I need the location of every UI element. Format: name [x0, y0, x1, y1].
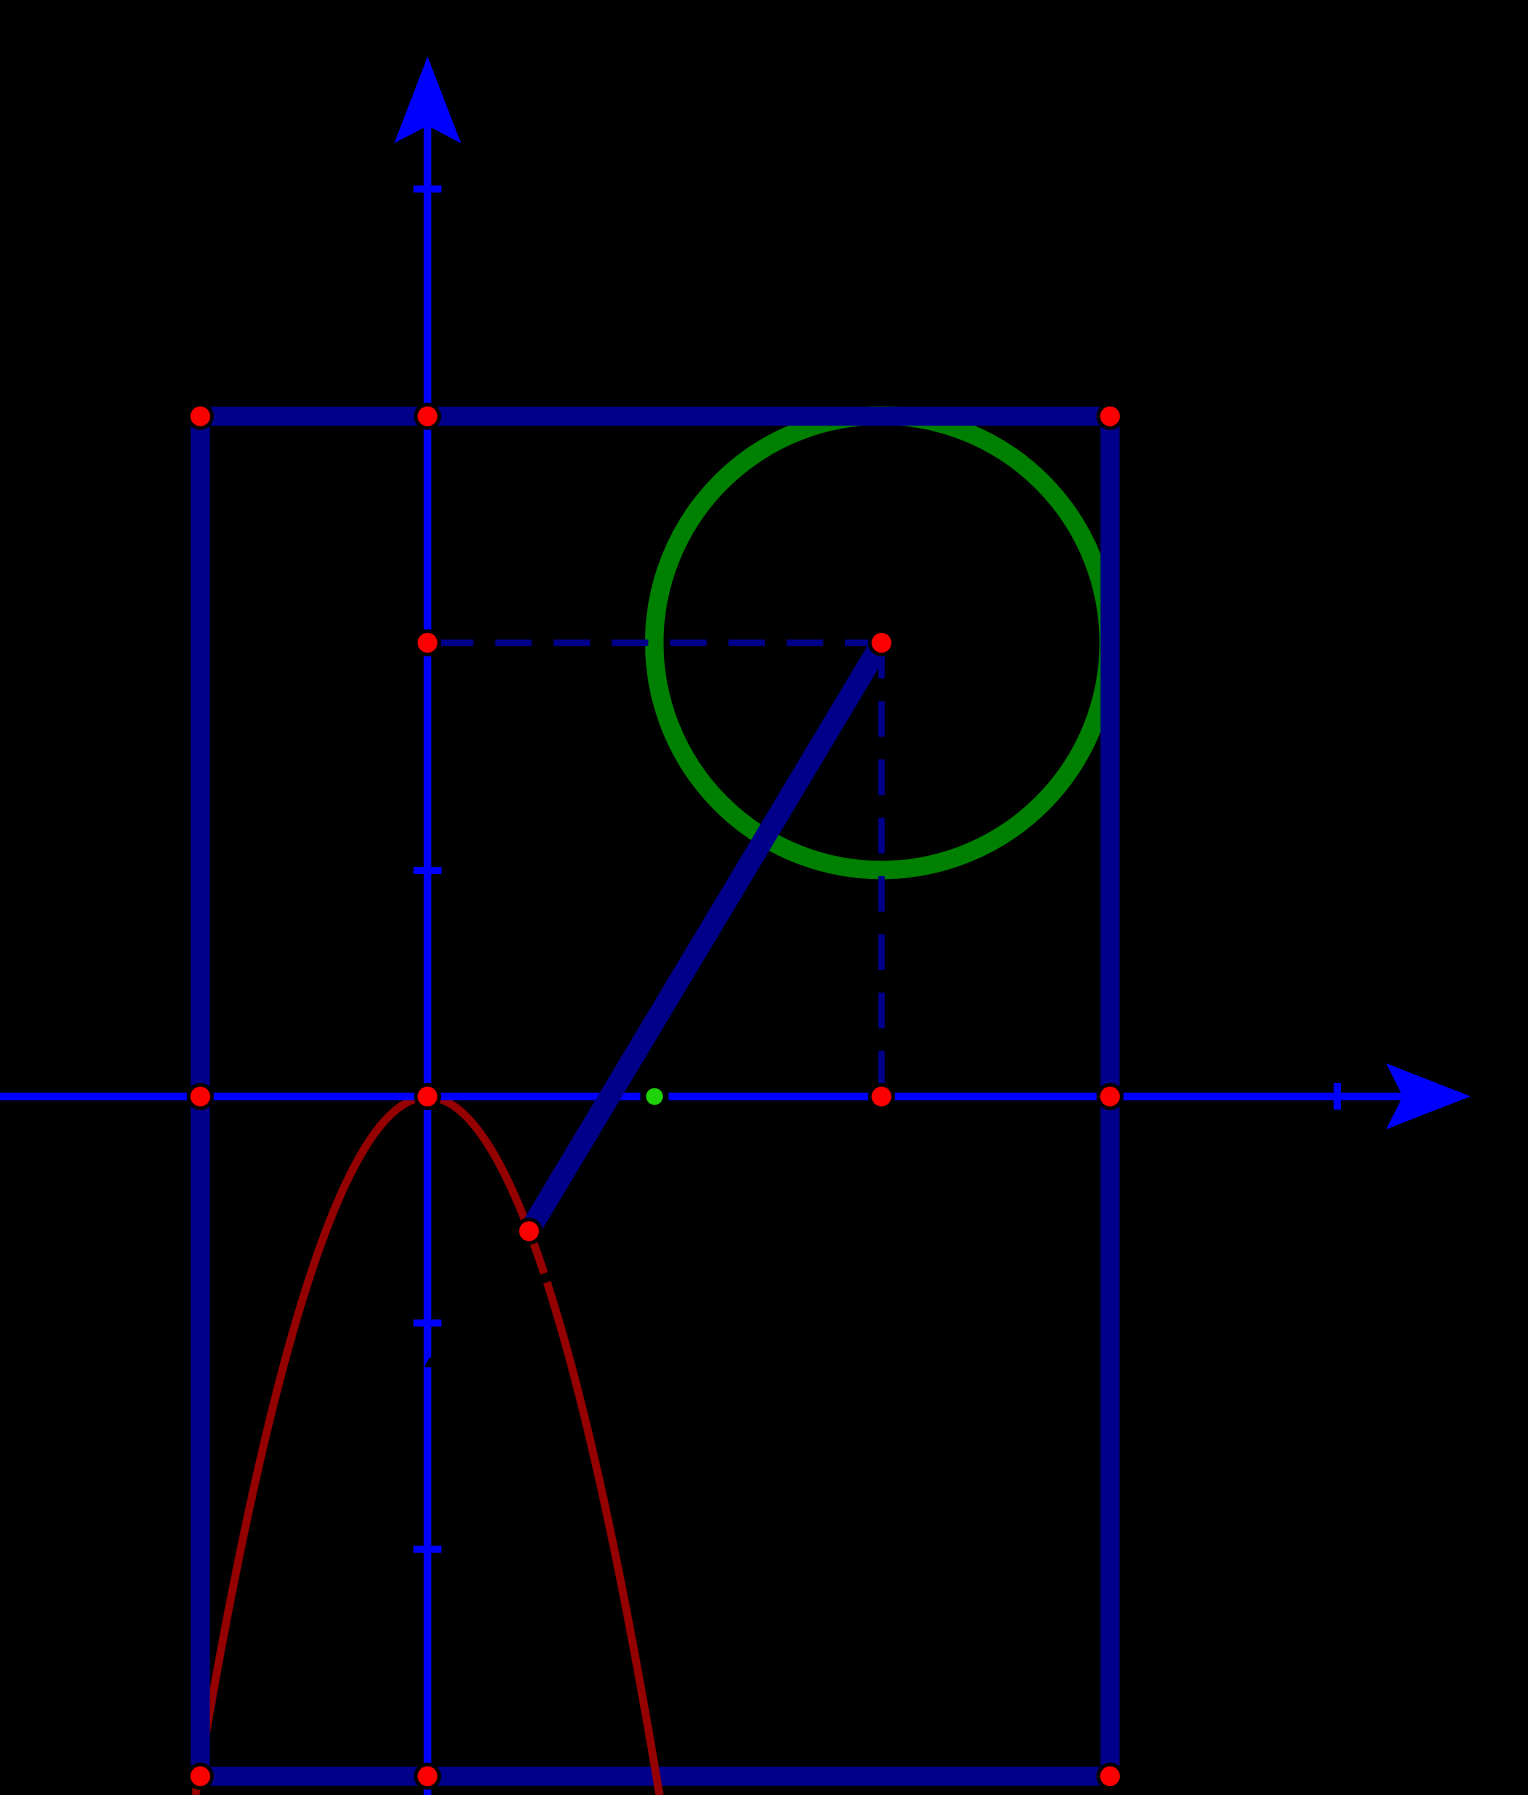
black axis label notch "-1"	[425, 1355, 434, 1367]
rectangle side AB (bottom edge, under parabola)	[191, 1767, 1120, 1786]
rectangle side BC (right edge)	[1101, 407, 1120, 1786]
y-axis tick y=-2	[414, 1546, 442, 1553]
x-axis tick at x=4	[1334, 1083, 1341, 1110]
y-axis tick y=4	[414, 186, 442, 193]
y-axis line	[424, 122, 432, 1795]
parabola dash gap (black patch below point E)	[543, 1274, 546, 1283]
point (-1,0)	[187, 1083, 214, 1110]
point E on parabola	[515, 1218, 542, 1245]
rectangle side DA (left edge)	[191, 407, 210, 1786]
point D (-1,3)	[187, 403, 214, 430]
circle c (green), center (2,2) radius 1	[654, 416, 1108, 870]
point C (3,3)	[1096, 403, 1123, 430]
dashed segment from center to x-axis	[878, 643, 885, 1097]
thick segment from center M to point E on parabola	[529, 643, 882, 1231]
point B (3,0)	[1096, 1083, 1123, 1110]
y-axis tick y=1	[414, 867, 442, 874]
point A (-1,-3)	[187, 1763, 214, 1790]
point M center (2,2)	[868, 629, 895, 656]
point (2,0)	[868, 1083, 895, 1110]
y-axis arrowhead	[394, 57, 461, 144]
dashed segment from center to y-axis	[428, 640, 882, 647]
parabola y = -3x^2 (dark red)	[196, 1097, 660, 1795]
x-axis line	[0, 1093, 1406, 1101]
point (0,3)	[414, 403, 441, 430]
green point (1,0)	[640, 1082, 669, 1111]
point (0,2)	[414, 629, 441, 656]
y-axis tick y=-1	[414, 1320, 442, 1327]
point (3,-3)	[1096, 1763, 1123, 1790]
x-axis arrowhead	[1386, 1063, 1471, 1129]
rectangle side CD (top edge)	[191, 407, 1120, 426]
point O origin	[414, 1083, 441, 1110]
point (0,-3)	[414, 1763, 441, 1790]
